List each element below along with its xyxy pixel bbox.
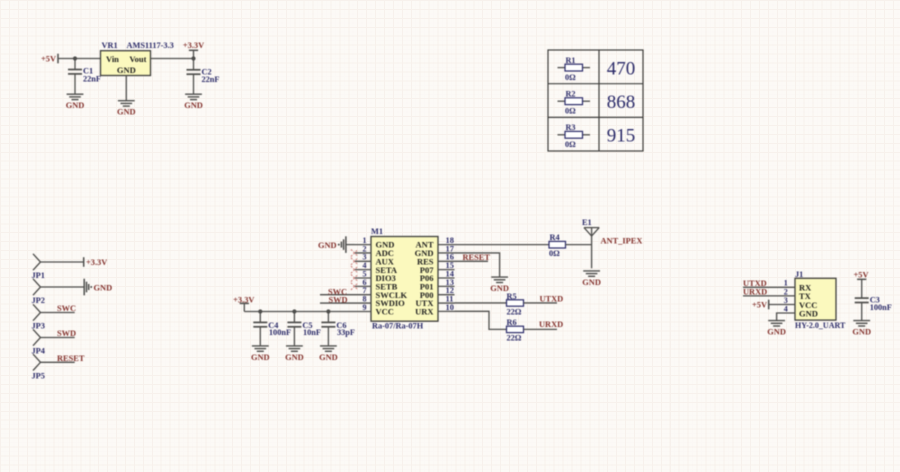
svg-text:0Ω: 0Ω [565, 107, 576, 116]
wire JP2 to GND [41, 286, 85, 288]
junction C6 [326, 309, 330, 313]
svg-text:GND: GND [767, 328, 786, 337]
resistor R2 [558, 100, 566, 102]
svg-text:ANT_IPEX: ANT_IPEX [601, 236, 643, 245]
svg-text:SWD: SWD [329, 296, 348, 305]
ground under C2 [185, 94, 202, 99]
svg-text:Ra-07/Ra-07H: Ra-07/Ra-07H [372, 322, 424, 331]
header pin JP4 [33, 329, 41, 345]
wire C2 to GND [193, 74, 195, 93]
wire R4 to antenna [566, 244, 592, 246]
svg-text:GND: GND [184, 101, 203, 110]
wire Vout to +3.3V node [151, 58, 194, 60]
svg-text:M1: M1 [371, 227, 383, 236]
stub +3.3V to rail [243, 303, 245, 311]
regulator VR1 AMS1117-3.3 body [101, 51, 151, 76]
capacitor C4 [253, 322, 267, 326]
wire R6 to URXD [524, 328, 558, 330]
resistor R4 [549, 241, 566, 248]
svg-text:0Ω: 0Ω [565, 73, 576, 82]
svg-text:22nF: 22nF [83, 75, 101, 84]
svg-text:E1: E1 [582, 218, 592, 227]
pin 10 stub [438, 310, 455, 312]
svg-text:VR1: VR1 [102, 41, 118, 50]
wire URXD to J1 pin2 [743, 295, 795, 297]
wire C4 to GND [259, 327, 261, 346]
svg-text:R4: R4 [550, 233, 560, 242]
junction C2/+3.3V [191, 56, 195, 60]
power port GND at JP2 [83, 279, 85, 296]
pin 8 wire [320, 302, 371, 304]
pin 17 stub [438, 252, 455, 254]
wire C5 to GND [293, 327, 295, 346]
wire VCC rail to pin 9 [244, 311, 371, 313]
ground pin17 [491, 277, 508, 282]
ground under C4 [252, 346, 269, 351]
svg-text:GND: GND [319, 353, 338, 362]
ground under C5 [286, 346, 303, 351]
resistor R6 [507, 326, 524, 332]
wire rail to C4 [259, 312, 261, 323]
svg-text:868: 868 [607, 92, 636, 113]
svg-text:0Ω: 0Ω [565, 140, 576, 149]
ground under VR1 [118, 101, 135, 106]
wire +5V down to C1 [74, 59, 76, 70]
svg-text:GND: GND [94, 283, 113, 292]
svg-text:100nF: 100nF [870, 303, 892, 312]
svg-text:Vout: Vout [129, 54, 146, 64]
ground at J1 pin4 [768, 321, 785, 326]
svg-text:SWD: SWD [57, 329, 76, 338]
pin 4 wire [355, 269, 372, 271]
wire GND bar to pin1 [346, 244, 355, 246]
svg-text:R5: R5 [507, 292, 517, 301]
svg-text:Vin: Vin [106, 54, 119, 64]
wire pin18 to R4 [455, 244, 550, 246]
svg-text:+5V: +5V [752, 300, 767, 309]
junction C1/+5V wire [73, 56, 77, 60]
svg-text:100nF: 100nF [269, 328, 291, 337]
capacitor C6 [321, 322, 335, 326]
svg-text:+3.3V: +3.3V [86, 258, 107, 267]
wire +5V to J1 pin3 [769, 304, 795, 306]
resistor R5 [507, 300, 524, 306]
wire pin11 to R5 [455, 302, 507, 304]
svg-text:UTXD: UTXD [540, 295, 564, 304]
svg-text:AMS1117-3.3: AMS1117-3.3 [127, 41, 174, 50]
pin 14 stub [438, 277, 455, 279]
svg-text:URXD: URXD [743, 287, 767, 296]
wire JP1 to +3.3V [41, 261, 84, 263]
capacitor C3 [855, 298, 869, 302]
wire J1 pin4 to GND [777, 313, 795, 320]
ground under C6 [320, 346, 337, 351]
svg-text:GND: GND [117, 65, 136, 75]
svg-text:GND: GND [318, 241, 337, 250]
resistor R1 [558, 67, 566, 69]
header pin JP1 [33, 254, 41, 270]
stub up to +3.3V port [193, 50, 195, 58]
svg-text:GND: GND [799, 308, 818, 318]
svg-text:470: 470 [607, 58, 636, 79]
svg-text:GND: GND [285, 353, 304, 362]
wire node down to C2 [193, 59, 195, 70]
svg-text:R6: R6 [507, 318, 517, 327]
wire UTXD to J1 pin1 [743, 286, 795, 288]
pin 11 stub [438, 302, 455, 304]
wire C6 to GND [327, 327, 329, 346]
svg-text:22Ω: 22Ω [507, 334, 522, 343]
svg-text:+5V: +5V [853, 271, 868, 280]
power port bar +3.3V JP1 [83, 257, 85, 267]
svg-text:VCC: VCC [376, 307, 394, 317]
svg-text:GND: GND [117, 108, 136, 117]
header pin JP5 [33, 354, 41, 370]
svg-text:9: 9 [363, 303, 367, 312]
svg-text:URX: URX [415, 307, 434, 317]
wire +5V to C3 [861, 279, 863, 298]
no-connect pin 6 [351, 283, 358, 290]
power port bar +3.3V [189, 49, 198, 51]
pin 13 stub [438, 285, 455, 287]
svg-text:GND: GND [582, 278, 601, 287]
pin 7 wire [320, 294, 371, 296]
no-connect pin 5 [351, 274, 358, 281]
ground under C3 [853, 321, 870, 326]
svg-text:RESET: RESET [57, 354, 85, 363]
svg-text:URXD: URXD [539, 320, 563, 329]
no-connect pin 3 [351, 258, 358, 265]
capacitor C2 [187, 70, 201, 74]
svg-text:GND: GND [852, 328, 871, 337]
pin 2 wire [355, 252, 372, 254]
pin 16 stub [438, 260, 455, 262]
svg-text:+5V: +5V [41, 55, 56, 64]
header pin JP2 [33, 279, 41, 295]
wire +5V to VR1 Vin [58, 58, 101, 60]
resistor R3 [558, 134, 566, 136]
svg-text:10nF: 10nF [303, 328, 321, 337]
svg-text:22nF: 22nF [202, 75, 220, 84]
junction C4 [258, 309, 262, 313]
svg-text:GND: GND [251, 353, 270, 362]
svg-text:RESET: RESET [463, 253, 491, 262]
svg-text:0Ω: 0Ω [549, 249, 560, 258]
svg-text:GND: GND [66, 101, 85, 110]
wire VR1 GND pin down [125, 76, 127, 101]
svg-text:JP2: JP2 [32, 296, 45, 305]
svg-text:HY-2.0_UART: HY-2.0_UART [795, 321, 846, 330]
svg-text:JP5: JP5 [32, 371, 45, 380]
wire JP4 SWD [41, 337, 75, 339]
resistor option table frame [548, 50, 643, 151]
wire rail to C6 [327, 312, 329, 323]
wire pin16 RESET [455, 260, 489, 262]
IC M1 Ra-07 body [371, 237, 438, 322]
svg-text:R1: R1 [566, 56, 576, 65]
pin 6 wire [355, 285, 372, 287]
svg-text:4: 4 [784, 304, 788, 313]
capacitor C5 [287, 322, 301, 326]
pin 15 stub [438, 269, 455, 271]
wire JP5 RESET [41, 361, 75, 363]
wire C3 to GND [861, 303, 863, 321]
svg-text:J1: J1 [795, 270, 803, 279]
pin 3 wire [355, 260, 372, 262]
no-connect pin 4 [351, 266, 358, 273]
svg-text:R3: R3 [566, 123, 576, 132]
svg-text:+3.3V: +3.3V [183, 41, 204, 50]
connector J1 body [795, 278, 836, 320]
wire R5 to UTXD [524, 302, 558, 304]
svg-text:22Ω: 22Ω [507, 307, 522, 316]
pin 5 wire [355, 277, 372, 279]
ground under antenna [583, 271, 600, 276]
capacitor C1 [68, 70, 82, 74]
svg-text:R2: R2 [566, 90, 576, 99]
wire pin17 to ground [455, 253, 500, 277]
pin 18 stub [438, 244, 455, 246]
wire pin10 to R6 [455, 311, 507, 329]
ground under C1 [67, 94, 84, 99]
no-connect pin 2 [351, 249, 358, 256]
wire JP3 SWC [41, 312, 75, 314]
pin 1 wire [355, 244, 372, 246]
svg-text:10: 10 [446, 303, 454, 312]
pin 12 stub [438, 294, 455, 296]
svg-text:915: 915 [607, 126, 636, 147]
svg-text:SWC: SWC [57, 304, 76, 313]
header pin JP3 [33, 304, 41, 320]
wire C1 to GND [74, 74, 76, 94]
wire rail to C5 [293, 312, 295, 323]
svg-text:33pF: 33pF [337, 328, 355, 337]
junction C5 [292, 309, 296, 313]
